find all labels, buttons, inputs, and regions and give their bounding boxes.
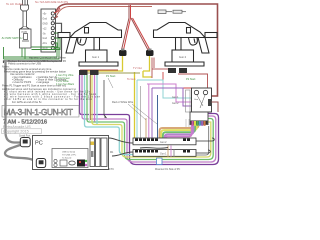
svg-text:TO USB of PC: TO USB of PC [62,155,77,157]
svg-text:GND: GND [43,24,48,26]
svg-text:Gun 2: Gun 2 [179,55,187,59]
svg-text:Red or White Wire: Red or White Wire [112,100,134,104]
svg-text:-5v PWR SWITCH: -5v PWR SWITCH [1,36,22,40]
svg-text:Gun 1: Gun 1 [92,55,100,59]
svg-text:PWR: PWR [22,31,28,34]
svg-text:Gun 1: Gun 1 [172,96,179,99]
svg-text:Gun 2: Gun 2 [160,141,167,144]
svg-text:Mounted On Side of PC: Mounted On Side of PC [155,168,181,171]
svg-text:Copyright 2015: Copyright 2015 [3,130,29,134]
svg-text:• Language: • Language [36,80,50,84]
svg-text:PC: PC [35,141,43,147]
svg-text:To Sound: To Sound [62,158,72,160]
svg-text:Gnd: Gnd [43,19,48,21]
svg-text:To Gun: To Gun [127,77,136,81]
svg-text:To AC Outlet: To AC Outlet [6,2,23,6]
svg-text:TV Out: TV Out [133,66,142,70]
svg-text:No 72A ARCADE GUN PS: No 72A ARCADE GUN PS [35,0,68,4]
svg-text:Gun 2: Gun 2 [172,102,179,105]
svg-text:P2 Start: P2 Start [186,77,196,81]
svg-text:Plainly connector to the USB: Plainly connector to the USB [8,61,41,65]
svg-text:For 12/5v at end of the 5v: For 12/5v at end of the 5v [12,100,42,104]
svg-text:Press P1 Trigger and P1 Start: Press P1 Trigger and P1 Start at same ti… [2,83,67,87]
svg-text:Serial Port: Serial Port [19,135,30,138]
svg-text:• Lives for P1/P2: • Lives for P1/P2 [12,80,32,84]
svg-text:USB to Serial: USB to Serial [62,151,76,154]
svg-text:P1 Start: P1 Start [106,74,116,78]
svg-text:Gnd: Gnd [43,38,48,40]
svg-text:RetroArcade.US: RetroArcade.US [3,125,31,129]
svg-text:Gun 1: Gun 1 [160,153,167,156]
svg-text:ACL: ACL [43,42,48,45]
svg-text:MA-3-IN-1-GUN-KIT: MA-3-IN-1-GUN-KIT [4,107,73,117]
